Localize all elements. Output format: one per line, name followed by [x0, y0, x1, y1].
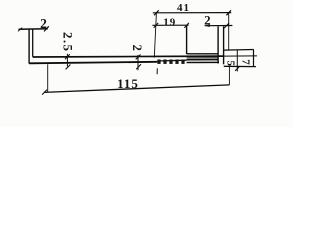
serration base line: [157, 59, 186, 62]
41/19 shared left extension line down to web: [154, 13, 156, 58]
115 left tick: [42, 90, 47, 95]
svg-text:7: 7: [239, 59, 251, 65]
5/7 shared vertical dimension line: [236, 50, 238, 72]
41 right extension line: [228, 13, 230, 50]
extension stub below serration start: [156, 68, 158, 74]
arrowhead of box-wall 2 dim: [205, 24, 210, 27]
41 right tick: [226, 10, 231, 15]
serration teeth (filled): [157, 60, 184, 64]
svg-text:2: 2: [204, 12, 211, 27]
web top line: [33, 55, 224, 58]
wall-thickness 2 dimension line (box right wall): [205, 25, 233, 27]
channel floor line: [187, 53, 218, 55]
svg-text:2.5: 2.5: [61, 32, 76, 52]
right end: 7 top extension line A: [224, 49, 254, 52]
115 left extension riser: [47, 64, 49, 92]
web top extension line to right: [224, 55, 257, 57]
tick slash left end of top-left dim: [18, 28, 22, 32]
2.5 web thickness dim line: [66, 54, 68, 67]
svg-text:2: 2: [40, 16, 47, 31]
channel right wall outer line: [223, 26, 225, 64]
2 tick at web bottom: [136, 64, 141, 69]
svg-text:41: 41: [177, 2, 190, 14]
tick across box wall: [224, 23, 229, 28]
19 dimension line: [152, 24, 188, 26]
41 left tick: [154, 10, 159, 15]
channel right wall inner line: [217, 26, 219, 63]
2 web thickness dim line (middle): [137, 55, 139, 70]
svg-text:5: 5: [225, 60, 237, 66]
left wall outer line: [28, 29, 30, 63]
2.5 tick at web top: [65, 54, 70, 59]
right end closing vertical: [253, 50, 255, 67]
channel bottom line: [187, 61, 219, 63]
channel band filler line: [187, 57, 219, 59]
115 right extension riser: [228, 67, 230, 85]
2 tick at web top: [136, 55, 141, 60]
web bottom line left of serration: [29, 62, 157, 64]
tick slash right end of top-left dim: [44, 26, 49, 31]
115 dimension line: [44, 85, 229, 93]
right end bottom extension line C: [224, 65, 256, 67]
left wall inner line: [32, 29, 34, 57]
svg-text:2: 2: [130, 45, 144, 51]
channel left wall: [186, 25, 188, 54]
41 dimension line: [153, 12, 231, 14]
svg-text:19: 19: [163, 17, 176, 29]
19 left tick: [154, 23, 159, 28]
channel mid line (serration level continues): [187, 59, 219, 61]
top-left dimension line for wall thickness 2: [19, 28, 48, 31]
19 right tick: [184, 23, 189, 28]
svg-text:115: 115: [117, 76, 139, 91]
5/7 bottom tick: [235, 66, 240, 71]
2.5 tick at web bottom: [66, 65, 71, 70]
